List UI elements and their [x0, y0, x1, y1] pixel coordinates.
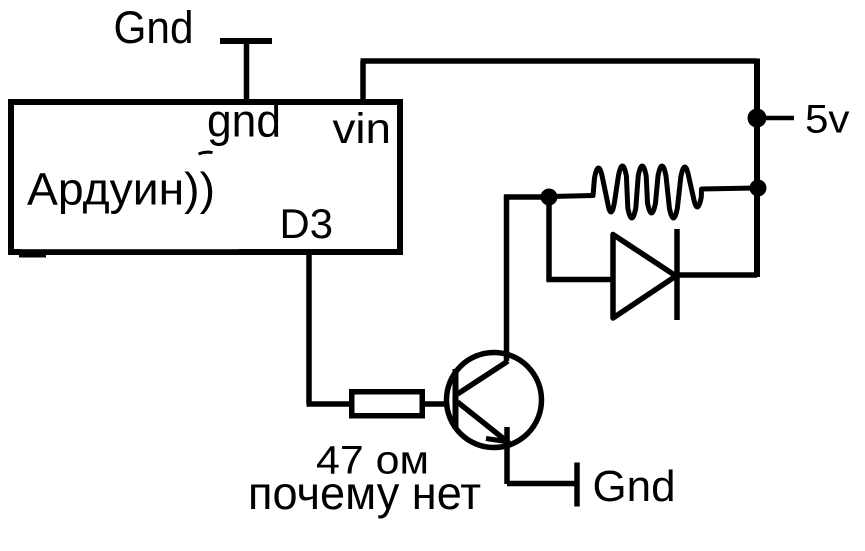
diode D1 triangle — [613, 235, 676, 319]
wire collector riser — [504, 195, 510, 361]
svg-text:Ардуин)): Ардуин)) — [27, 164, 215, 215]
transistor Q1 base bar — [453, 369, 459, 429]
svg-text:почему нет: почему нет — [248, 467, 481, 519]
svg-text:vin: vin — [333, 105, 392, 153]
wire emitter drop — [504, 427, 510, 484]
transistor Q1 emitter stroke — [458, 402, 510, 443]
transistor Q1 circle — [447, 353, 542, 448]
svg-text:gnd: gnd — [207, 95, 281, 147]
wire top horizontal rail — [361, 58, 758, 64]
wire gnd pin riser — [244, 39, 250, 103]
wire D3 drop — [306, 255, 312, 404]
transistor Q1 emitter arrow line — [486, 439, 506, 442]
diode D1 cathode bar — [674, 229, 680, 320]
ground symbol (bottom) bar — [574, 463, 580, 507]
wire D3 to resistor — [307, 401, 350, 407]
transistor Q1 collector stroke — [458, 361, 509, 394]
box bottom edge artifact — [19, 245, 239, 257]
wire diode anode horizontal — [547, 277, 614, 283]
ground symbol (top) — [220, 38, 272, 44]
node coil-left junction dot — [541, 189, 558, 206]
svg-text:Gnd: Gnd — [593, 462, 676, 511]
svg-text:5v: 5v — [805, 98, 850, 142]
svg-text:D3: D3 — [280, 200, 334, 247]
wire diode anode drop — [546, 197, 552, 281]
wire base from resistor — [425, 401, 447, 407]
wire vin riser — [360, 61, 366, 102]
wire node to collector riser — [504, 194, 549, 200]
resistor R1 body — [352, 392, 423, 416]
wire right vertical rail — [754, 59, 760, 278]
wire diode cathode horizontal — [677, 272, 757, 278]
node 5v junction dot — [748, 109, 767, 128]
Arduino box U1 — [11, 102, 400, 252]
svg-text:Gnd: Gnd — [114, 2, 194, 53]
wire emitter to ground — [507, 481, 577, 487]
stray mark under gnd — [199, 152, 213, 154]
node coil-right junction dot — [750, 180, 767, 197]
inductor L1 coil — [551, 166, 755, 218]
5v tick — [766, 116, 794, 121]
